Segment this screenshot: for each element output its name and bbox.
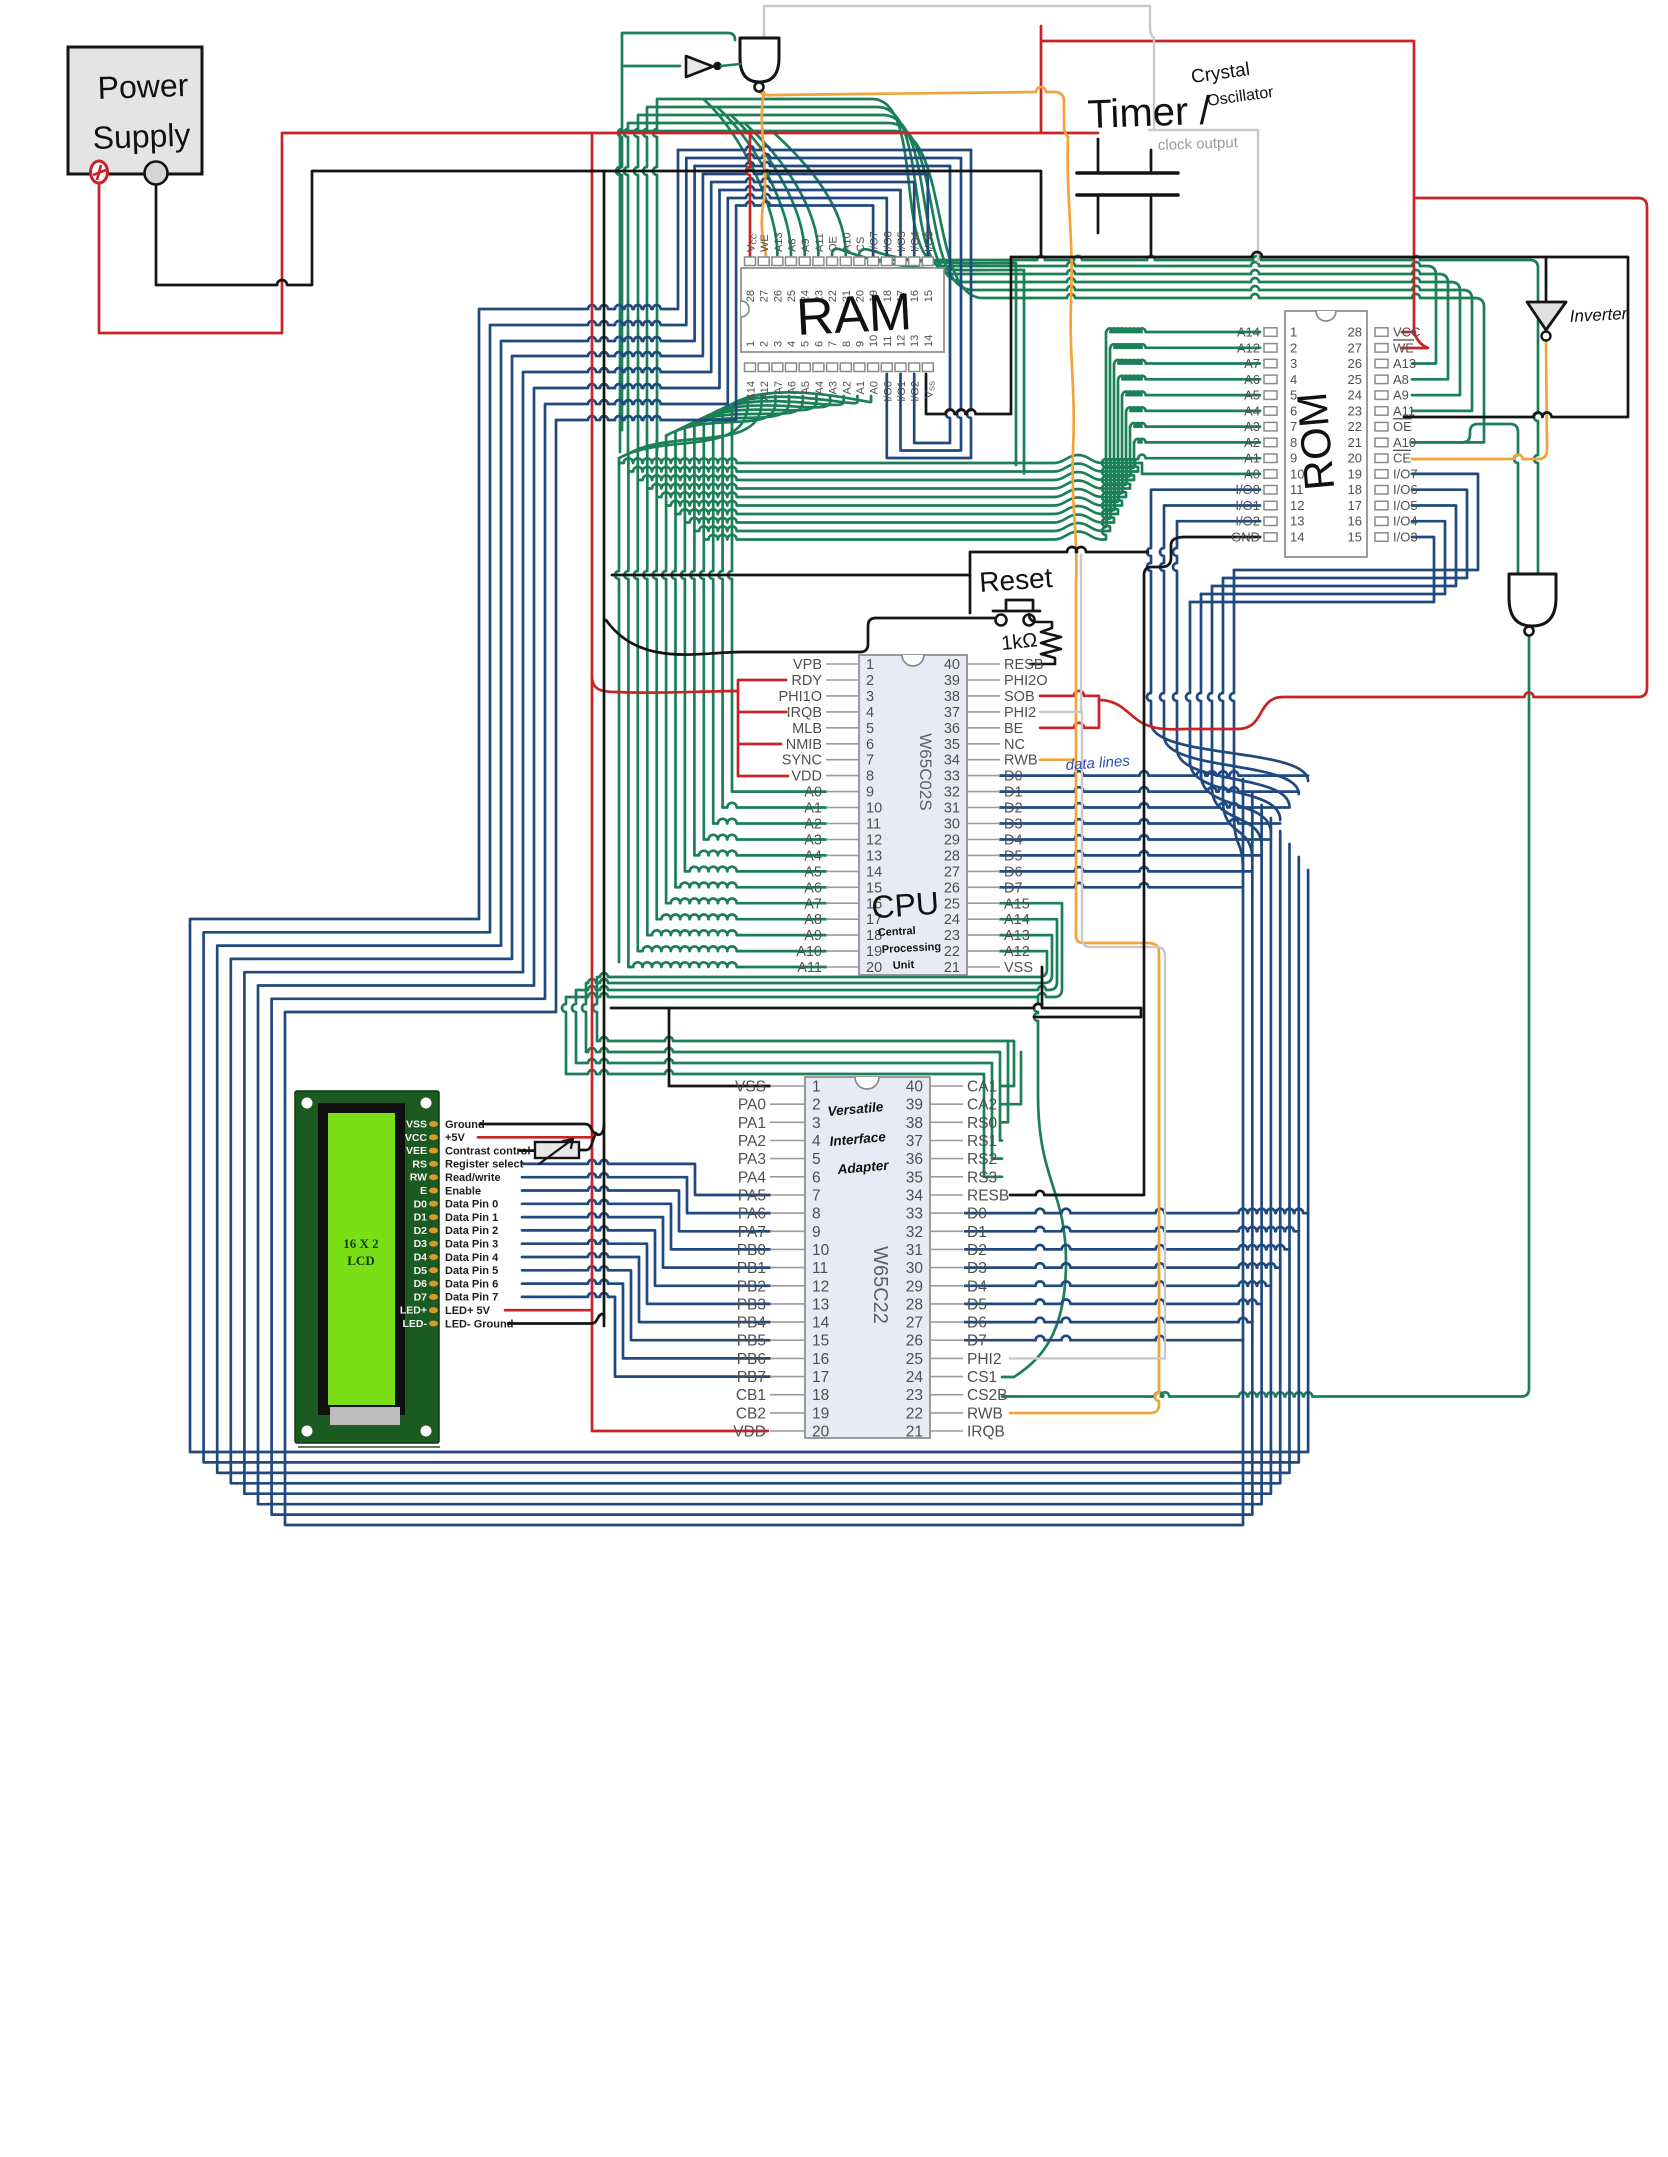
- green address rails to ROM: [619, 328, 1260, 539]
- svg-text:OE: OE: [1393, 419, 1412, 434]
- svg-text:A4: A4: [804, 848, 822, 864]
- blue wires CPU D0-D7: [1000, 771, 1308, 887]
- svg-text:D0: D0: [967, 1206, 987, 1223]
- svg-text:1kΩ: 1kΩ: [1000, 629, 1038, 655]
- svg-text:22: 22: [906, 1405, 923, 1422]
- svg-text:A5: A5: [800, 381, 812, 394]
- svg-text:PB7: PB7: [737, 1369, 766, 1386]
- blue wires LCD to VIA PA5-PB7: [522, 1160, 770, 1377]
- svg-text:I/O5: I/O5: [1393, 498, 1418, 513]
- black inverter input stub: [1545, 257, 1548, 300]
- svg-text:7: 7: [812, 1187, 821, 1204]
- svg-text:CE: CE: [1393, 451, 1411, 466]
- svg-text:PA2: PA2: [738, 1133, 766, 1150]
- svg-text:31: 31: [944, 801, 960, 817]
- svg-text:I/O5: I/O5: [896, 231, 908, 252]
- svg-text:A13: A13: [1393, 356, 1416, 371]
- svg-text:LED- Ground: LED- Ground: [445, 1318, 513, 1330]
- svg-text:6: 6: [866, 737, 874, 753]
- svg-text:I/O4: I/O4: [910, 231, 922, 252]
- svg-text:A9: A9: [800, 239, 812, 252]
- svg-text:VCC: VCC: [1393, 325, 1420, 340]
- svg-text:1: 1: [812, 1079, 821, 1096]
- svg-text:CA1: CA1: [967, 1079, 997, 1096]
- svg-text:PHI2: PHI2: [967, 1351, 1001, 1368]
- svg-text:PA3: PA3: [738, 1151, 766, 1168]
- svg-text:A6: A6: [1244, 372, 1260, 387]
- svg-text:A14: A14: [746, 381, 758, 401]
- svg-text:A10: A10: [796, 944, 822, 960]
- svg-text:A3: A3: [804, 832, 822, 848]
- svg-text:Data Pin 3: Data Pin 3: [445, 1239, 498, 1251]
- svg-text:Data Pin 4: Data Pin 4: [445, 1252, 499, 1264]
- svg-text:24: 24: [1348, 388, 1362, 403]
- svg-text:D5: D5: [1004, 848, 1023, 864]
- svg-text:24: 24: [944, 912, 960, 928]
- svg-text:14: 14: [866, 864, 882, 880]
- svg-text:PB1: PB1: [737, 1260, 766, 1277]
- RAM chip U2: [741, 231, 944, 402]
- NAND gate G1: [740, 38, 779, 92]
- svg-text:I/O4: I/O4: [1393, 514, 1418, 529]
- svg-text:D4: D4: [1004, 832, 1023, 848]
- svg-text:9: 9: [812, 1224, 821, 1241]
- svg-text:17: 17: [1348, 498, 1362, 513]
- svg-text:D6: D6: [967, 1315, 987, 1332]
- svg-text:A14: A14: [1237, 325, 1260, 340]
- svg-text:Data Pin 2: Data Pin 2: [445, 1225, 498, 1237]
- svg-text:6: 6: [812, 1169, 821, 1186]
- svg-text:A0: A0: [1244, 466, 1260, 481]
- svg-text:13: 13: [812, 1296, 829, 1313]
- svg-text:RDY: RDY: [791, 673, 822, 689]
- black wire to reset box: [612, 574, 970, 577]
- svg-text:CA2: CA2: [967, 1097, 997, 1114]
- green arcs RAM address pins to bus: [619, 392, 871, 458]
- svg-text:22: 22: [1348, 419, 1362, 434]
- orange wire RWB CPU stub: [1040, 758, 1076, 761]
- svg-text:19: 19: [812, 1405, 829, 1422]
- svg-text:RWB: RWB: [967, 1405, 1003, 1422]
- svg-text:24: 24: [906, 1369, 924, 1386]
- svg-text:Unit: Unit: [893, 959, 915, 972]
- svg-text:17: 17: [812, 1369, 829, 1386]
- svg-text:I/O6: I/O6: [882, 231, 894, 252]
- green wires CPU A0-A11: [628, 792, 826, 967]
- svg-text:D1: D1: [967, 1224, 987, 1241]
- svg-text:21: 21: [1348, 435, 1362, 450]
- svg-text:A7: A7: [1244, 356, 1260, 371]
- svg-text:NMIB: NMIB: [786, 737, 822, 753]
- svg-text:I/O3: I/O3: [1393, 530, 1418, 545]
- svg-text:IRQB: IRQB: [967, 1424, 1005, 1441]
- svg-text:RWB: RWB: [1004, 753, 1038, 769]
- svg-text:A1: A1: [1244, 451, 1260, 466]
- svg-text:27: 27: [906, 1315, 923, 1332]
- svg-text:LED+ 5V: LED+ 5V: [445, 1305, 491, 1317]
- svg-text:PB5: PB5: [737, 1333, 766, 1350]
- svg-text:VSS: VSS: [1004, 960, 1033, 976]
- svg-text:VEE: VEE: [406, 1145, 427, 1157]
- svg-text:3: 3: [772, 341, 784, 347]
- svg-text:Inverter: Inverter: [1569, 304, 1629, 326]
- svg-text:12: 12: [812, 1278, 829, 1295]
- black wire RAM Vss to bus: [926, 257, 1011, 414]
- svg-text:18: 18: [1348, 482, 1362, 497]
- svg-text:VPB: VPB: [793, 657, 822, 673]
- svg-text:A10: A10: [841, 232, 853, 252]
- red wire RAM Vcc drop: [746, 133, 750, 257]
- svg-text:32: 32: [906, 1224, 923, 1241]
- svg-text:20: 20: [1348, 451, 1362, 466]
- black wires LCD grounds: [480, 1124, 604, 1324]
- svg-text:27: 27: [944, 864, 960, 880]
- svg-text:W65C02S: W65C02S: [916, 733, 935, 810]
- svg-text:A8: A8: [787, 239, 799, 252]
- svg-text:20: 20: [866, 960, 882, 976]
- svg-text:3: 3: [866, 689, 874, 705]
- svg-text:4: 4: [812, 1133, 821, 1150]
- svg-text:28: 28: [1348, 325, 1362, 340]
- black wire left ground vertical: [603, 171, 606, 1326]
- svg-text:25: 25: [1348, 372, 1362, 387]
- svg-text:23: 23: [944, 928, 960, 944]
- svg-text:VCC: VCC: [405, 1132, 428, 1144]
- svg-text:CB1: CB1: [736, 1387, 766, 1404]
- svg-text:PB3: PB3: [737, 1296, 766, 1313]
- svg-text:38: 38: [944, 689, 960, 705]
- svg-text:16: 16: [812, 1351, 829, 1368]
- svg-text:5: 5: [866, 721, 874, 737]
- svg-text:RS1: RS1: [967, 1133, 997, 1150]
- red wires LCD VCC and LED+: [478, 1137, 592, 1310]
- svg-text:4: 4: [1290, 372, 1297, 387]
- svg-text:27: 27: [759, 290, 771, 302]
- svg-text:PB2: PB2: [737, 1278, 766, 1295]
- svg-text:NC: NC: [1004, 737, 1025, 753]
- svg-text:Supply: Supply: [92, 117, 191, 156]
- green wire to VIA CS1: [1002, 999, 1066, 1377]
- red comb CPU RDY IRQB NMIB VDD: [738, 680, 788, 776]
- green wire ROM A10 to NAND input: [1412, 424, 1518, 572]
- green wire NAND output to VIA CS2B: [1149, 631, 1529, 1397]
- svg-text:D2: D2: [1004, 801, 1023, 817]
- orange wire inverter to ROM CE: [1412, 342, 1547, 459]
- svg-text:D5: D5: [414, 1265, 428, 1277]
- svg-text:28: 28: [906, 1296, 923, 1313]
- svg-text:LCD: LCD: [347, 1253, 374, 1268]
- svg-text:14: 14: [812, 1315, 830, 1332]
- svg-text:25: 25: [906, 1351, 923, 1368]
- svg-text:Data Pin 5: Data Pin 5: [445, 1265, 498, 1277]
- svg-text:RW: RW: [410, 1172, 427, 1184]
- svg-text:A0: A0: [804, 785, 822, 801]
- svg-text:I/O2: I/O2: [1235, 514, 1260, 529]
- svg-text:34: 34: [906, 1187, 924, 1204]
- svg-text:15: 15: [923, 290, 935, 302]
- svg-text:29: 29: [944, 832, 960, 848]
- svg-text:9: 9: [866, 785, 874, 801]
- svg-text:PHI1O: PHI1O: [778, 689, 822, 705]
- svg-text:I/O0: I/O0: [882, 381, 894, 402]
- black wire reset button feed: [606, 618, 994, 655]
- svg-text:A0: A0: [869, 381, 881, 394]
- svg-text:A8: A8: [1393, 372, 1409, 387]
- svg-text:1: 1: [1290, 325, 1297, 340]
- svg-text:29: 29: [906, 1278, 923, 1295]
- svg-text:26: 26: [1348, 356, 1362, 371]
- svg-text:Timer /: Timer /: [1087, 89, 1212, 137]
- resistor R1 1k: [1029, 614, 1061, 664]
- svg-text:CS: CS: [855, 237, 867, 252]
- capacitor C1 timer: [1077, 139, 1178, 257]
- svg-text:Read/write: Read/write: [445, 1172, 501, 1184]
- svg-text:IRQB: IRQB: [787, 705, 822, 721]
- svg-text:W65C22: W65C22: [869, 1246, 891, 1324]
- svg-text:RESB: RESB: [1004, 657, 1044, 673]
- svg-text:A9: A9: [1393, 388, 1409, 403]
- svg-text:22: 22: [944, 944, 960, 960]
- svg-text:D0: D0: [414, 1198, 428, 1210]
- svg-text:VSS: VSS: [735, 1079, 766, 1096]
- svg-text:1: 1: [745, 341, 757, 347]
- svg-text:15: 15: [1348, 530, 1362, 545]
- push button SW1: [993, 600, 1040, 626]
- svg-text:A7: A7: [773, 381, 785, 394]
- svg-text:D3: D3: [1004, 817, 1023, 833]
- inverter G4: [1527, 302, 1566, 341]
- svg-text:D4: D4: [414, 1252, 428, 1264]
- svg-text:A5: A5: [804, 864, 822, 880]
- svg-text:Data Pin 0: Data Pin 0: [445, 1199, 498, 1211]
- svg-text:OE: OE: [828, 236, 840, 252]
- svg-text:E: E: [420, 1185, 427, 1197]
- svg-text:A2: A2: [841, 381, 853, 394]
- svg-text:14: 14: [923, 335, 935, 347]
- svg-text:I/O1: I/O1: [1235, 498, 1260, 513]
- svg-text:PA1: PA1: [738, 1115, 766, 1132]
- svg-text:Reset: Reset: [978, 562, 1053, 598]
- svg-text:VSS: VSS: [406, 1119, 427, 1131]
- svg-text:A11: A11: [1393, 403, 1415, 418]
- svg-text:11: 11: [866, 817, 881, 833]
- svg-text:D1: D1: [414, 1212, 428, 1224]
- power supply PS1: [68, 47, 202, 185]
- svg-text:39: 39: [944, 673, 960, 689]
- svg-text:WE: WE: [759, 234, 771, 252]
- inverter G2: [686, 56, 740, 77]
- svg-text:21: 21: [906, 1424, 923, 1441]
- svg-text:PB4: PB4: [737, 1315, 767, 1332]
- svg-text:7: 7: [866, 753, 874, 769]
- svg-text:38: 38: [906, 1115, 923, 1132]
- svg-text:CPU: CPU: [870, 885, 940, 926]
- black wire VIA VSS: [669, 1008, 770, 1086]
- svg-text:27: 27: [1348, 340, 1362, 355]
- svg-text:A2: A2: [1244, 435, 1260, 450]
- svg-text:RS2: RS2: [967, 1151, 997, 1168]
- svg-text:I/O6: I/O6: [1393, 482, 1418, 497]
- svg-text:D0: D0: [1004, 769, 1023, 785]
- black wire ROM GND / reset to VIA RESB: [1010, 537, 1260, 1195]
- ROM chip U3: [1231, 311, 1420, 557]
- svg-text:D6: D6: [414, 1278, 428, 1290]
- red wire CPU SOB/BE to right rail: [1040, 198, 1647, 729]
- svg-text:11: 11: [812, 1260, 828, 1277]
- svg-text:CB2: CB2: [736, 1405, 766, 1422]
- svg-text:A8: A8: [804, 912, 822, 928]
- svg-text:Enable: Enable: [445, 1185, 481, 1197]
- svg-text:I/O0: I/O0: [1235, 482, 1260, 497]
- svg-text:30: 30: [944, 817, 960, 833]
- svg-text:2: 2: [812, 1097, 821, 1114]
- svg-text:+5V: +5V: [445, 1132, 466, 1144]
- red wire power rail +5V: [99, 133, 1098, 333]
- svg-text:1: 1: [866, 657, 874, 673]
- red wire main +5V vertical: [592, 133, 768, 1431]
- svg-text:4: 4: [786, 341, 798, 347]
- svg-text:A1: A1: [804, 801, 822, 817]
- svg-text:10: 10: [866, 801, 882, 817]
- svg-text:PA6: PA6: [738, 1206, 766, 1223]
- svg-text:VDD: VDD: [791, 769, 822, 785]
- svg-text:LED+: LED+: [400, 1305, 427, 1317]
- svg-text:clock output: clock output: [1158, 134, 1239, 154]
- red wire top-right Vcc to ROM: [1041, 26, 1428, 348]
- svg-text:28: 28: [944, 848, 960, 864]
- svg-text:20: 20: [812, 1424, 830, 1441]
- green wrap bus CPU A12-A15 to VIA RS0-RS3: [562, 903, 1062, 1177]
- svg-text:A14: A14: [1004, 912, 1030, 928]
- svg-text:A12: A12: [1237, 340, 1260, 355]
- gray clock wire to PHI2: [1010, 555, 1165, 1358]
- green wire CS2B stub: [1002, 1395, 1149, 1398]
- svg-text:GND: GND: [1231, 530, 1260, 545]
- svg-text:40: 40: [944, 657, 960, 673]
- NAND gate G3: [1509, 574, 1556, 636]
- orange wire RAM WE drop: [762, 92, 766, 257]
- svg-text:A1: A1: [855, 381, 867, 394]
- black reset box outline: [970, 547, 1148, 613]
- svg-text:16: 16: [1348, 514, 1362, 529]
- svg-text:35: 35: [944, 737, 960, 753]
- svg-text:30: 30: [906, 1260, 924, 1277]
- svg-text:D4: D4: [967, 1278, 987, 1295]
- svg-text:25: 25: [944, 896, 960, 912]
- svg-text:Power: Power: [97, 67, 189, 106]
- svg-text:D2: D2: [414, 1225, 428, 1237]
- svg-text:36: 36: [944, 721, 960, 737]
- blue wires VIA D0-D7: [965, 1209, 1308, 1341]
- svg-text:37: 37: [906, 1133, 923, 1150]
- red branch to CPU: [592, 676, 738, 693]
- svg-text:23: 23: [1348, 403, 1362, 418]
- svg-text:31: 31: [906, 1242, 923, 1259]
- svg-text:39: 39: [906, 1097, 923, 1114]
- svg-text:A11: A11: [797, 960, 822, 976]
- svg-text:33: 33: [944, 769, 960, 785]
- svg-text:PB0: PB0: [737, 1242, 767, 1259]
- svg-text:26: 26: [772, 290, 784, 302]
- svg-text:A3: A3: [828, 381, 840, 394]
- svg-text:D3: D3: [414, 1238, 428, 1250]
- svg-text:14: 14: [1290, 530, 1304, 545]
- svg-text:RS3: RS3: [967, 1169, 997, 1186]
- svg-text:BE: BE: [1004, 721, 1024, 737]
- svg-text:PB6: PB6: [737, 1351, 766, 1368]
- svg-text:35: 35: [906, 1169, 923, 1186]
- svg-text:PA7: PA7: [738, 1224, 766, 1241]
- svg-text:Central: Central: [878, 925, 916, 939]
- svg-text:MLB: MLB: [792, 721, 822, 737]
- svg-text:RAM: RAM: [795, 283, 913, 347]
- svg-text:LED-: LED-: [403, 1318, 428, 1330]
- black wire LCD contrast: [520, 1133, 596, 1151]
- svg-text:RS0: RS0: [967, 1115, 998, 1132]
- svg-text:2: 2: [866, 673, 874, 689]
- svg-text:19: 19: [866, 944, 882, 960]
- svg-text:D7: D7: [414, 1291, 428, 1303]
- svg-text:34: 34: [944, 753, 960, 769]
- svg-text:PHI2O: PHI2O: [1004, 673, 1048, 689]
- svg-text:A2: A2: [804, 817, 822, 833]
- svg-text:WE: WE: [1393, 340, 1414, 355]
- svg-text:A13: A13: [773, 232, 785, 252]
- svg-text:12: 12: [866, 832, 882, 848]
- svg-text:A6: A6: [787, 381, 799, 394]
- svg-text:2: 2: [1290, 340, 1297, 355]
- orange wire NAND to RWB lines: [759, 87, 1159, 1413]
- svg-text:A13: A13: [1004, 928, 1030, 944]
- svg-text:A12: A12: [1004, 944, 1030, 960]
- svg-text:D1: D1: [1004, 785, 1023, 801]
- svg-text:A12: A12: [759, 381, 771, 401]
- svg-text:2: 2: [759, 341, 771, 347]
- svg-text:RS: RS: [412, 1158, 427, 1170]
- svg-text:PA4: PA4: [738, 1169, 767, 1186]
- svg-text:I/O1: I/O1: [896, 381, 908, 402]
- svg-text:A5: A5: [1244, 388, 1260, 403]
- svg-text:33: 33: [906, 1206, 923, 1223]
- svg-text:A3: A3: [1244, 419, 1260, 434]
- potentiometer R2 contrast: [535, 1139, 579, 1164]
- svg-text:PA5: PA5: [738, 1187, 766, 1204]
- blue data bus big loop: [190, 150, 1308, 1525]
- svg-text:8: 8: [812, 1206, 821, 1223]
- black bus to ROM OE: [1011, 252, 1628, 417]
- svg-text:VDD: VDD: [733, 1424, 766, 1441]
- svg-text:13: 13: [1290, 514, 1304, 529]
- blue bus arch: [1151, 723, 1308, 872]
- svg-text:Contrast control: Contrast control: [445, 1145, 531, 1157]
- svg-text:D2: D2: [967, 1242, 987, 1259]
- svg-text:Data Pin 7: Data Pin 7: [445, 1292, 498, 1304]
- svg-text:8: 8: [866, 769, 874, 785]
- svg-text:I/O7: I/O7: [869, 231, 881, 252]
- svg-text:A11: A11: [814, 233, 826, 252]
- svg-text:Register select: Register select: [445, 1159, 524, 1171]
- blue data rails above RAM: [678, 146, 971, 257]
- svg-text:A6: A6: [804, 880, 822, 896]
- svg-text:40: 40: [906, 1079, 924, 1096]
- svg-text:D6: D6: [1004, 864, 1023, 880]
- green address bus left verticals: [615, 404, 732, 967]
- svg-text:Ground: Ground: [445, 1119, 485, 1131]
- svg-text:CS1: CS1: [967, 1369, 997, 1386]
- svg-text:D7: D7: [967, 1333, 987, 1350]
- svg-text:D5: D5: [967, 1296, 987, 1313]
- svg-text:SYNC: SYNC: [782, 753, 822, 769]
